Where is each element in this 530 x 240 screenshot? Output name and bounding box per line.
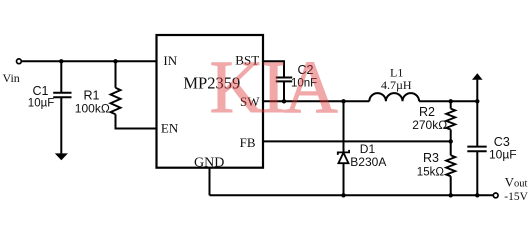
wire L1 to output corner [419,100,477,102]
svg-text:IN: IN [163,53,177,68]
wire SW line [263,100,369,102]
svg-text:15kΩ: 15kΩ [417,167,445,179]
wire C3 bottom lead [476,151,478,195]
capacitor C2 [276,78,292,82]
junction R1/top rail [113,59,117,63]
wire BST to C2 [263,61,284,76]
wire R1 bottom to EN pin [116,114,158,128]
inductor L1 [369,93,419,101]
junction FB/R2/R3 [449,139,453,143]
svg-text:EN: EN [161,120,179,135]
junction R3/rail [449,193,453,197]
svg-text:R3: R3 [423,151,439,165]
wire R2 top lead [450,101,452,108]
resistor R2 [446,109,455,130]
svg-text:FB: FB [240,135,256,150]
wire up to output arrow [476,80,478,102]
wire C3 top lead [476,101,478,146]
diode D1 schottky cathode bar [338,150,349,155]
capacitor C1 [53,93,71,97]
resistor R3 [446,155,455,176]
junction C3/rail [475,193,479,197]
junction D1/SW [341,99,345,103]
junction output corner [475,99,479,103]
svg-text:10µF: 10µF [489,148,517,162]
svg-text:4.7µH: 4.7µH [381,78,412,92]
wire D1 anode lead to rail [343,163,345,195]
wire R1 top lead [115,61,117,88]
wire R3 bottom lead [450,176,452,195]
resistor R1 [111,88,121,115]
svg-text:100kΩ: 100kΩ [75,101,110,115]
wire C1 bottom lead [60,97,62,154]
wire top rail Vin to IN [21,60,157,62]
svg-text:B230A: B230A [350,155,386,169]
ground arrow (C1) [55,153,68,160]
svg-text:10µF: 10µF [28,97,54,109]
svg-text:KIA: KIA [210,46,338,129]
svg-text:Vin: Vin [3,71,20,85]
watermark KIA [210,46,338,129]
wire D1 cathode lead from SW [343,101,345,152]
svg-text:-15V: -15V [504,191,528,203]
capacitor C3 [467,147,486,152]
IC U1 MP2359 [157,35,264,168]
svg-text:R2: R2 [419,105,435,119]
diode D1 triangle [338,153,348,164]
svg-text:D1: D1 [360,142,376,156]
svg-text:C1: C1 [33,84,49,98]
node Vout terminal [493,193,498,198]
arrow output (up) [472,73,483,79]
junction C1/top rail [59,59,63,63]
wire GND pin lead [209,168,211,196]
wire bottom rail [210,194,494,196]
junction C2/SW [282,99,286,103]
wire FB line [263,140,451,142]
wire R3 top lead [450,141,452,155]
junction D1/rail [341,193,345,197]
wire C2 bottom to SW line [283,81,285,101]
svg-text:270kΩ: 270kΩ [412,118,447,132]
node Vin terminal [17,59,22,64]
wire C1 top lead [60,61,62,92]
junction R2/SW line [449,99,453,103]
wire R2 bottom lead [450,130,452,142]
svg-text:Vout: Vout [505,175,528,190]
